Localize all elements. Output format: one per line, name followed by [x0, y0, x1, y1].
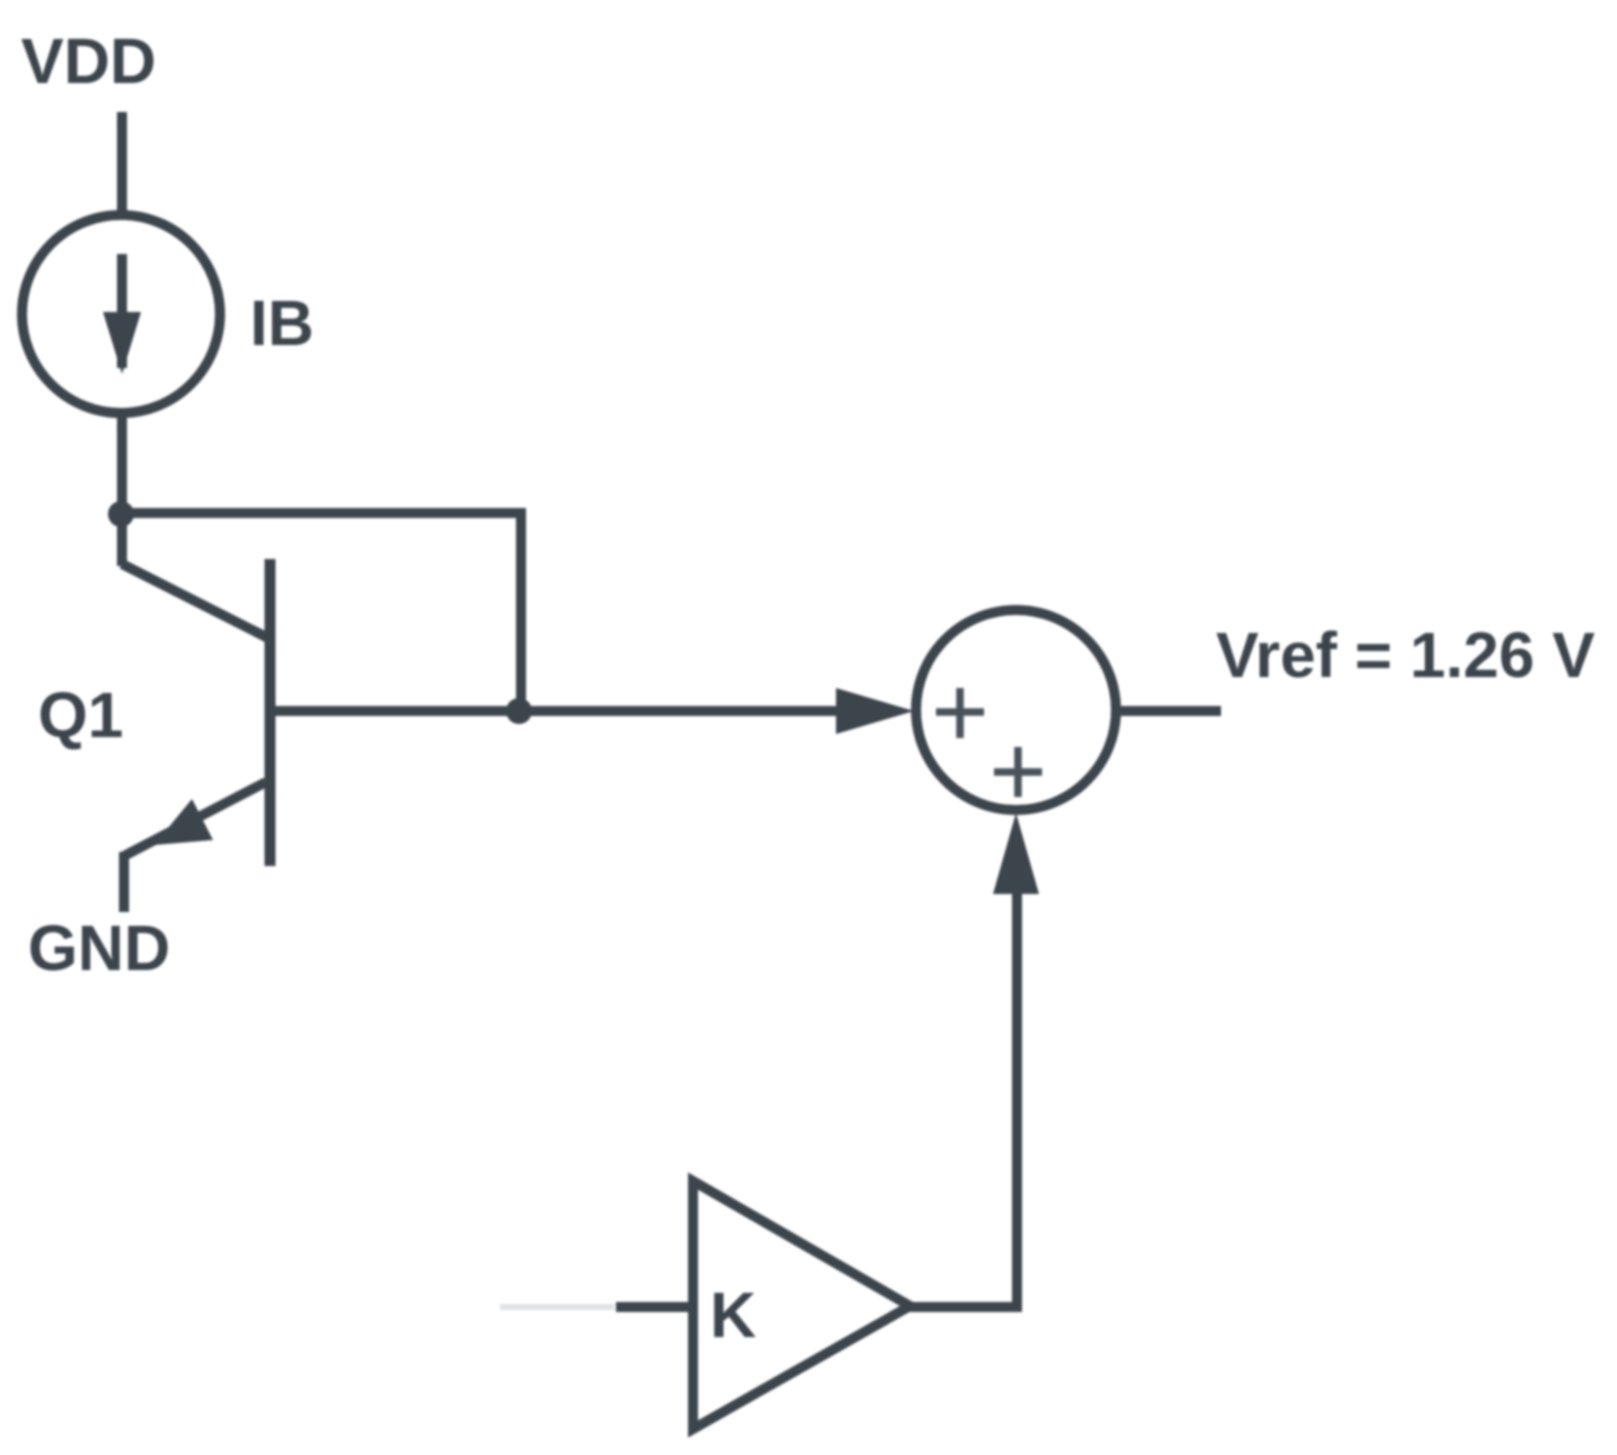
- svg-text:Q1: Q1: [38, 679, 123, 751]
- svg-text:VDD: VDD: [21, 25, 156, 97]
- svg-text:IB: IB: [250, 287, 314, 359]
- svg-text:GND: GND: [28, 912, 170, 984]
- svg-text:Vref = 1.26 V: Vref = 1.26 V: [1216, 619, 1595, 691]
- svg-text:K: K: [710, 1279, 756, 1351]
